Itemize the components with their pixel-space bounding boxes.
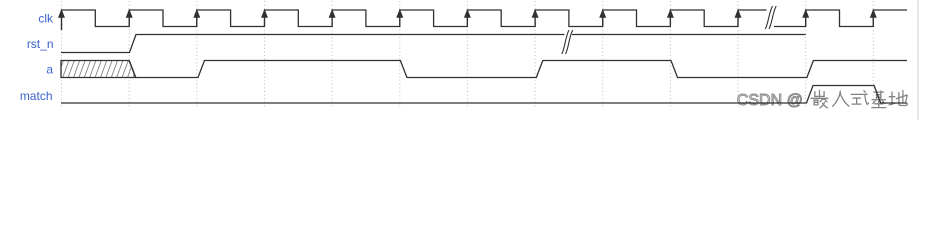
signal name labels: clk, rst_n, a, match bbox=[20, 12, 54, 104]
svg-text:match: match bbox=[20, 89, 53, 103]
clk break symbol // bbox=[765, 6, 776, 29]
svg-text:clk: clk bbox=[38, 12, 54, 26]
svg-text:rst_n: rst_n bbox=[27, 37, 54, 51]
svg-text:a: a bbox=[46, 63, 53, 77]
watermark hanzi DI (ground char) bbox=[889, 91, 907, 106]
signal a waveform bbox=[129, 61, 907, 78]
signal rst_n waveform bbox=[61, 35, 806, 53]
watermark hanzi JI (base char) bbox=[872, 91, 886, 108]
signal match waveform bbox=[61, 86, 907, 104]
svg-text:CSDN @: CSDN @ bbox=[737, 92, 803, 109]
watermark hanzi RU (enter char) bbox=[833, 91, 849, 106]
watermark CSDN @ (latin part) bbox=[737, 92, 803, 109]
rst_n break symbol // bbox=[562, 30, 573, 54]
clk rising-edge arrows bbox=[59, 11, 876, 31]
signal clk waveform bbox=[62, 10, 908, 30]
watermark hanzi QIAN (mountain-top char) bbox=[811, 90, 828, 107]
window edge line bbox=[917, 0, 919, 120]
clock-edge gridlines bbox=[62, 1, 874, 108]
watermark hanzi SHI (style char) bbox=[851, 91, 868, 105]
